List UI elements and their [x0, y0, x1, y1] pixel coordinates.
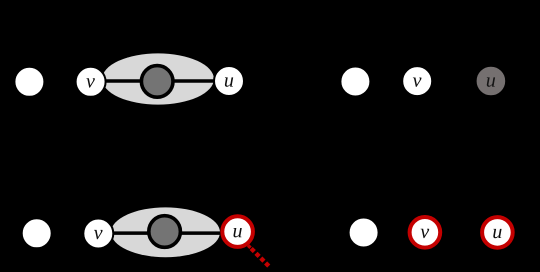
node v (bottom-left): [83, 219, 113, 249]
node u highlighted red (bottom-right): [482, 217, 513, 248]
node v highlighted red (bottom-right): [410, 217, 441, 248]
node u gray (top-right): [476, 66, 506, 96]
supernode ellipse: [102, 53, 214, 104]
wire: edge v-u (bottom): [99, 231, 237, 235]
node u (top-left): [214, 66, 244, 96]
supernode ellipse (bottom): [111, 207, 220, 257]
contracted node (dark) top-left: [141, 66, 173, 98]
red dashed pointer from u: [251, 249, 269, 267]
wire: edge v-u: [91, 79, 229, 83]
red dash nub at ring edge: [247, 244, 252, 249]
node v (top-left): [76, 67, 106, 97]
node plain (bottom-left): [22, 218, 52, 248]
node v (top-right): [402, 66, 432, 96]
node plain (top-right): [340, 67, 370, 97]
node u highlighted red (bottom-left): [222, 216, 253, 247]
contracted node (dark) bottom-left: [149, 216, 181, 248]
node plain (bottom-right): [349, 218, 379, 248]
node plain (top-left): [14, 67, 44, 97]
